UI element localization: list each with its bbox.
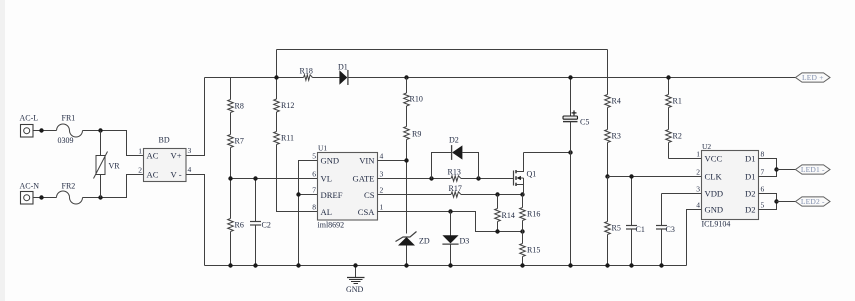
fuse FR2 xyxy=(57,182,83,205)
resistor R5 xyxy=(605,177,621,266)
wire xyxy=(461,194,523,196)
resistor R12 xyxy=(274,50,295,113)
svg-text:VL: VL xyxy=(321,174,332,184)
svg-text:2: 2 xyxy=(138,166,142,175)
svg-text:AC-L: AC-L xyxy=(20,114,39,123)
capacitor C2 xyxy=(250,179,271,266)
wire CLK xyxy=(608,176,702,178)
svg-text:V -: V - xyxy=(171,170,182,180)
svg-text:VDD: VDD xyxy=(705,189,724,199)
node xyxy=(228,176,232,180)
svg-text:7: 7 xyxy=(761,168,765,177)
wire xyxy=(461,178,514,180)
svg-text:R10: R10 xyxy=(410,95,423,104)
wire xyxy=(83,175,144,198)
port LED1 - xyxy=(796,165,831,174)
svg-text:GND: GND xyxy=(705,205,724,215)
svg-text:4: 4 xyxy=(188,165,192,174)
wire DREF xyxy=(299,194,318,196)
node xyxy=(296,263,300,267)
svg-text:8: 8 xyxy=(761,150,765,159)
node xyxy=(495,229,499,233)
svg-text:R2: R2 xyxy=(673,132,682,141)
resistor R3 xyxy=(605,108,621,177)
svg-text:R13: R13 xyxy=(448,168,461,177)
svg-text:4: 4 xyxy=(380,152,384,161)
wire CSA xyxy=(378,212,523,232)
wire V+ riser xyxy=(186,78,205,156)
terminal AC-L xyxy=(20,114,39,138)
svg-text:U1: U1 xyxy=(318,144,327,153)
svg-text:R4: R4 xyxy=(612,97,621,106)
svg-text:R17: R17 xyxy=(449,184,462,193)
resistor R11 xyxy=(274,112,294,145)
svg-text:BD: BD xyxy=(159,136,170,145)
svg-text:ZD: ZD xyxy=(419,237,430,246)
node xyxy=(228,263,232,267)
svg-text:R15: R15 xyxy=(527,246,540,255)
svg-text:R11: R11 xyxy=(281,134,294,143)
node xyxy=(520,263,524,267)
resistor R8 xyxy=(228,78,244,113)
node xyxy=(274,75,278,79)
wire xyxy=(33,130,57,132)
svg-text:1: 1 xyxy=(696,150,700,159)
svg-text:3: 3 xyxy=(380,170,384,179)
wire to LED2 xyxy=(777,201,796,203)
wire xyxy=(33,197,57,199)
diode D2 xyxy=(432,136,479,179)
capacitor C3 xyxy=(656,194,675,266)
wire top link xyxy=(277,49,608,51)
wire AL riser xyxy=(277,145,318,212)
svg-text:2: 2 xyxy=(380,186,384,195)
wire xyxy=(348,77,796,79)
svg-text:R9: R9 xyxy=(412,130,421,139)
svg-text:V+: V+ xyxy=(171,151,182,161)
node xyxy=(404,158,408,162)
wire V- drop xyxy=(186,175,205,266)
svg-text:GND: GND xyxy=(346,285,364,294)
resistor R7 xyxy=(228,113,244,179)
wire D2 outputs xyxy=(759,194,777,210)
wire drain link xyxy=(524,152,571,154)
node xyxy=(568,263,572,267)
node xyxy=(568,75,572,79)
svg-text:DREF: DREF xyxy=(321,190,343,200)
node xyxy=(353,263,357,267)
node xyxy=(404,75,408,79)
node xyxy=(774,199,778,203)
svg-text:R12: R12 xyxy=(281,101,294,110)
svg-text:D1: D1 xyxy=(338,63,348,72)
wire to LED1 xyxy=(777,169,796,171)
svg-text:D3: D3 xyxy=(460,237,470,246)
node xyxy=(39,195,43,199)
svg-text:AC: AC xyxy=(147,151,159,161)
svg-text:8: 8 xyxy=(312,203,316,212)
svg-text:4: 4 xyxy=(696,201,700,210)
op-amp U1 iml8692 xyxy=(318,144,378,230)
bridge rectifier BD xyxy=(144,136,187,182)
node xyxy=(520,229,524,233)
svg-text:VR: VR xyxy=(109,162,121,171)
node xyxy=(448,263,452,267)
svg-text:5: 5 xyxy=(761,201,765,210)
svg-text:FR2: FR2 xyxy=(62,182,76,191)
resistor R1 xyxy=(666,78,682,108)
transistor Q1 xyxy=(514,153,537,195)
svg-text:U2: U2 xyxy=(702,142,711,151)
svg-text:6: 6 xyxy=(761,185,765,194)
svg-text:R18: R18 xyxy=(300,67,313,76)
resistor R6 xyxy=(228,179,244,266)
wire CS xyxy=(378,194,452,196)
svg-text:D1: D1 xyxy=(745,172,756,182)
svg-text:C1: C1 xyxy=(636,225,645,234)
svg-text:D1: D1 xyxy=(745,154,756,164)
driver U2 ICL9104 xyxy=(702,142,759,229)
svg-text:GND: GND xyxy=(321,156,340,166)
node xyxy=(629,263,633,267)
diode D1 xyxy=(338,63,348,86)
svg-text:2: 2 xyxy=(696,168,700,177)
varistor VR xyxy=(94,131,121,198)
ground symbol GND xyxy=(346,266,365,295)
node xyxy=(448,209,452,213)
resistor R18 xyxy=(300,67,313,81)
svg-text:3: 3 xyxy=(696,185,700,194)
wire GATE xyxy=(378,178,451,180)
resistor R2 xyxy=(666,108,682,159)
svg-text:CLK: CLK xyxy=(705,172,723,182)
svg-text:CSA: CSA xyxy=(358,207,376,217)
node xyxy=(774,167,778,171)
svg-text:R3: R3 xyxy=(612,132,621,141)
wire GND pin5 xyxy=(299,161,318,266)
wire xyxy=(313,77,341,79)
svg-text:LED1 -: LED1 - xyxy=(801,165,825,174)
port LED + xyxy=(796,73,831,82)
svg-text:VCC: VCC xyxy=(705,154,723,164)
wire VIN rail xyxy=(406,140,408,234)
resistor R9 xyxy=(404,106,422,140)
svg-text:GATE: GATE xyxy=(353,174,375,184)
svg-text:C5: C5 xyxy=(580,118,589,127)
capacitor C1 xyxy=(626,177,645,266)
svg-text:1: 1 xyxy=(380,203,384,212)
wire xyxy=(83,131,144,156)
resistor R17 xyxy=(449,184,462,197)
svg-text:D2: D2 xyxy=(745,205,756,215)
svg-text:AC: AC xyxy=(147,170,159,180)
svg-text:1: 1 xyxy=(138,147,142,156)
node xyxy=(629,174,633,178)
svg-text:VIN: VIN xyxy=(359,156,375,166)
wire VIN xyxy=(378,160,407,162)
resistor R13 xyxy=(448,168,462,182)
wire D1 outputs xyxy=(759,159,777,177)
resistor R16 xyxy=(520,195,541,232)
zener ZD xyxy=(396,232,430,266)
node xyxy=(429,176,433,180)
svg-text:R16: R16 xyxy=(527,210,540,219)
node xyxy=(520,192,524,196)
svg-text:D2: D2 xyxy=(449,136,459,145)
svg-text:C3: C3 xyxy=(666,225,675,234)
wire ground rail xyxy=(205,265,687,267)
svg-text:5: 5 xyxy=(312,152,316,161)
diode D3 xyxy=(442,212,469,266)
wire GND pin4 xyxy=(687,210,702,266)
node xyxy=(253,263,257,267)
node xyxy=(605,174,609,178)
svg-text:R7: R7 xyxy=(235,137,244,146)
svg-text:R5: R5 xyxy=(612,224,621,233)
node xyxy=(495,192,499,196)
svg-text:R1: R1 xyxy=(673,97,682,106)
svg-text:7: 7 xyxy=(312,186,316,195)
svg-text:6: 6 xyxy=(312,170,316,179)
svg-text:R6: R6 xyxy=(235,221,244,230)
resistor R4 xyxy=(605,95,621,108)
node xyxy=(666,75,670,79)
wire VDD xyxy=(662,193,702,195)
svg-text:AL: AL xyxy=(321,207,332,217)
svg-text:0309: 0309 xyxy=(58,136,74,145)
node xyxy=(39,128,43,132)
node xyxy=(404,263,408,267)
wire LED+ bus xyxy=(205,77,304,79)
svg-text:AC-N: AC-N xyxy=(20,182,40,191)
resistor R14 xyxy=(495,195,515,232)
node xyxy=(659,263,663,267)
svg-text:C2: C2 xyxy=(262,221,271,230)
node xyxy=(568,150,572,154)
wire VCC xyxy=(669,158,702,160)
svg-text:Q1: Q1 xyxy=(527,170,537,179)
capacitor C5 xyxy=(563,78,589,266)
svg-text:LED +: LED + xyxy=(802,73,824,82)
node xyxy=(98,128,102,132)
svg-text:D2: D2 xyxy=(745,189,756,199)
fuse FR1 xyxy=(57,114,83,146)
svg-text:R8: R8 xyxy=(235,102,244,111)
svg-text:ICL9104: ICL9104 xyxy=(702,220,731,229)
resistor R10 xyxy=(404,78,423,107)
node xyxy=(296,192,300,196)
svg-text:FR1: FR1 xyxy=(62,114,76,123)
svg-text:3: 3 xyxy=(188,146,192,155)
node xyxy=(476,176,480,180)
svg-text:iml8692: iml8692 xyxy=(318,221,345,230)
wire top link drop xyxy=(607,50,609,95)
svg-text:CS: CS xyxy=(364,190,375,200)
svg-text:LED2 -: LED2 - xyxy=(801,197,825,206)
node xyxy=(253,176,257,180)
port LED2 - xyxy=(796,197,831,206)
resistor R15 xyxy=(520,232,541,266)
svg-text:R14: R14 xyxy=(502,211,515,220)
node xyxy=(605,263,609,267)
wire VL xyxy=(231,178,318,180)
terminal AC-N xyxy=(20,182,40,205)
node xyxy=(98,195,102,199)
